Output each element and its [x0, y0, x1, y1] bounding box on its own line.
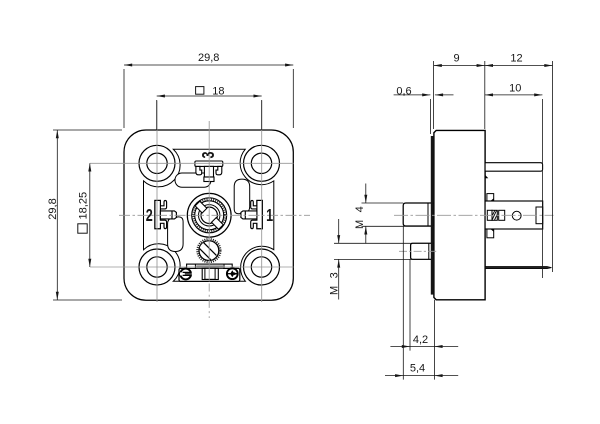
weld wedge on body edge [485, 175, 488, 178]
inner cavity contour [144, 149, 274, 281]
middle pin step upper [487, 194, 494, 201]
svg-text:4,2: 4,2 [413, 334, 428, 346]
housing outline front [124, 130, 293, 300]
central socket [187, 193, 231, 237]
svg-text:12: 12 [510, 52, 522, 64]
svg-text:29,8: 29,8 [198, 52, 219, 64]
svg-text:10: 10 [509, 83, 521, 95]
dimension 4,2 [390, 259, 458, 379]
middle pin step lower [487, 229, 494, 238]
svg-text:M 3: M 3 [328, 270, 340, 295]
dimension 5,4 [385, 226, 458, 379]
keyway slot lower-left [168, 217, 184, 252]
dimension 12 [485, 61, 553, 272]
svg-text:1: 1 [266, 206, 273, 226]
svg-text:M 4: M 4 [354, 204, 366, 229]
svg-text:29,8: 29,8 [47, 198, 59, 219]
middle pin [485, 201, 543, 229]
svg-text:18: 18 [212, 86, 224, 98]
pin label 3 [199, 151, 219, 158]
centerline side main [394, 214, 554, 216]
pin 2 [155, 200, 177, 228]
svg-text:2: 2 [146, 206, 153, 226]
pin label 2 [146, 206, 153, 226]
mounting hole top-left [139, 145, 175, 181]
dimension square 18 top [157, 96, 262, 130]
pin 3 side [485, 163, 542, 172]
M3 stud [411, 243, 434, 259]
M4 stud [403, 203, 434, 226]
svg-text:0,6: 0,6 [396, 85, 411, 97]
pin 1 [241, 200, 263, 228]
dimension 10 [485, 95, 543, 278]
svg-text:5,4: 5,4 [410, 363, 425, 375]
clamp screw right [227, 268, 238, 279]
gasket plate [431, 136, 434, 295]
dimension 29,8 top [124, 65, 293, 128]
centerline M3 stud [399, 250, 438, 252]
bottom pin [485, 267, 551, 269]
dimension 9 [434, 61, 485, 129]
svg-text:18,25: 18,25 [77, 192, 89, 220]
dimension M4 [362, 184, 434, 244]
keyway slot upper-right [234, 179, 250, 214]
svg-text:3: 3 [199, 151, 219, 158]
centerlines front [90, 101, 310, 319]
cable clamp bracket [179, 264, 240, 281]
svg-text:9: 9 [453, 52, 459, 64]
pin label 1 [266, 206, 273, 226]
side body [434, 130, 485, 299]
dimension 29,8 left [53, 130, 122, 300]
dimension 18,25 left [89, 163, 91, 267]
mounting hole top-right [244, 145, 280, 181]
slot left of pin 3 [175, 173, 211, 187]
pin 3 blade [195, 161, 223, 182]
ground screw [197, 239, 221, 262]
dimension 0,6 [394, 95, 454, 134]
mounting hole bottom-right [244, 249, 280, 285]
clamp screw left [180, 269, 191, 280]
dimension M3 [334, 219, 434, 300]
mounting hole bottom-left [139, 249, 175, 285]
